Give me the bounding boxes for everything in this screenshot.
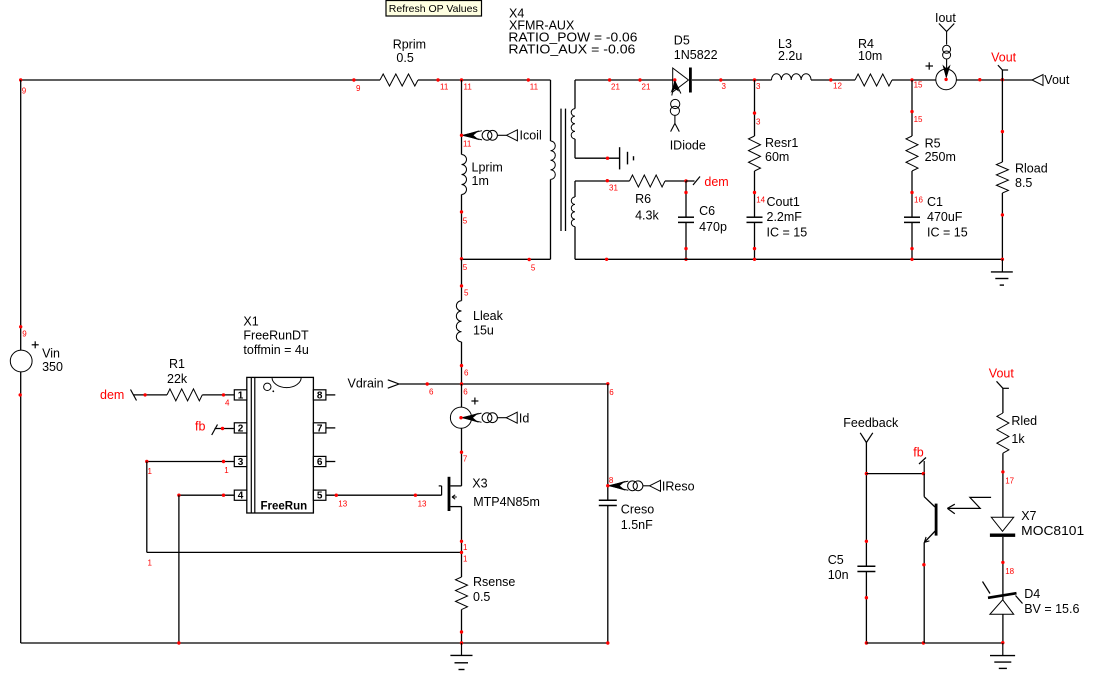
- svg-text:6: 6: [429, 388, 434, 397]
- wire Creso bottom: [606, 506, 609, 645]
- tag fb (left): [195, 420, 218, 436]
- wire D5 cathode to node 3: [673, 78, 771, 91]
- wire R1 to pin1: [202, 393, 234, 407]
- svg-text:0.5: 0.5: [396, 51, 413, 65]
- current probe Id: [450, 398, 529, 429]
- wire Rload to bottom: [1001, 193, 1004, 261]
- svg-text:R5: R5: [925, 137, 941, 151]
- svg-text:Id: Id: [519, 412, 529, 426]
- wire D4 to ground: [1001, 614, 1004, 644]
- capacitor C6 470p: [678, 181, 727, 261]
- svg-text:Rprim: Rprim: [393, 37, 426, 51]
- svg-text:8: 8: [609, 476, 614, 485]
- svg-text:1m: 1m: [472, 174, 489, 188]
- svg-text:470uF: 470uF: [927, 210, 963, 224]
- resistor Rled 1k: [997, 413, 1037, 453]
- svg-text:2: 2: [238, 423, 244, 434]
- svg-text:6: 6: [464, 369, 469, 378]
- svg-text:14: 14: [756, 195, 765, 204]
- svg-text:13: 13: [418, 499, 427, 508]
- wire Vout tag to Rled: [1002, 388, 1004, 413]
- svg-text:Refresh OP Values: Refresh OP Values: [389, 3, 478, 15]
- wire Vout node down to Rload: [1001, 70, 1004, 162]
- input port Feedback: [843, 416, 899, 442]
- IC X1 pin 2: [234, 423, 247, 435]
- wire fb to pin2: [215, 427, 235, 430]
- svg-text:Creso: Creso: [621, 503, 654, 517]
- svg-text:C6: C6: [699, 204, 715, 218]
- svg-text:60m: 60m: [765, 150, 789, 164]
- svg-text:1.5nF: 1.5nF: [621, 518, 653, 532]
- svg-text:1: 1: [463, 555, 468, 564]
- wire Feedback down: [865, 443, 868, 567]
- resistor R5 250m: [906, 136, 956, 171]
- svg-text:IC = 15: IC = 15: [927, 226, 968, 240]
- Refresh OP Values button: [386, 1, 482, 17]
- source Vin 350: [10, 341, 63, 374]
- transformer core: [561, 109, 566, 231]
- svg-text:Cout1: Cout1: [767, 195, 800, 209]
- transistor X7 phototransistor: [922, 474, 937, 643]
- svg-text:0.5: 0.5: [473, 590, 490, 604]
- wire MOSFET source down: [460, 507, 468, 577]
- wire Rsense to ground: [460, 610, 463, 645]
- input port Vdrain: [348, 377, 400, 391]
- IC X1 pin 1: [234, 390, 247, 402]
- transformer aux winding: [571, 181, 575, 259]
- resistor Rload 8.5: [996, 162, 1047, 194]
- resistor R1 22k: [167, 357, 202, 401]
- svg-text:3: 3: [238, 457, 244, 468]
- wire fb row: [866, 472, 925, 475]
- svg-text:7: 7: [463, 455, 468, 464]
- svg-text:RATIO_AUX = -0.06: RATIO_AUX = -0.06: [508, 43, 635, 57]
- wire node6 to Id probe: [461, 384, 463, 407]
- wire bottom rail: [21, 642, 608, 644]
- wire R6 to dem node: [665, 179, 688, 182]
- svg-text:Icoil: Icoil: [520, 129, 542, 143]
- wire pin5 to gate: [326, 494, 441, 509]
- transistor X3 MTP4N85m: [439, 477, 540, 512]
- svg-text:Rload: Rload: [1015, 162, 1048, 176]
- svg-text:C5: C5: [828, 553, 844, 567]
- svg-text:1: 1: [238, 390, 244, 401]
- svg-text:Lleak: Lleak: [473, 309, 504, 323]
- resistor Rprim: [380, 37, 426, 86]
- transformer primary winding: [551, 80, 556, 259]
- svg-text:10n: 10n: [828, 568, 849, 582]
- wire node3 down: [753, 80, 761, 136]
- svg-text:Vout: Vout: [991, 50, 1017, 64]
- svg-text:11: 11: [440, 83, 449, 92]
- svg-text:11: 11: [530, 83, 539, 92]
- wire pin3 left vertical: [146, 462, 148, 553]
- inductor Lprim 1m: [462, 155, 503, 195]
- svg-text:6: 6: [609, 388, 614, 397]
- svg-text:Vin: Vin: [42, 347, 60, 361]
- svg-text:4.3k: 4.3k: [635, 209, 659, 223]
- svg-text:250m: 250m: [925, 150, 956, 164]
- tag dem (aux): [686, 175, 729, 189]
- wire source row to left: [147, 551, 463, 568]
- output port Vout (top right): [1032, 73, 1070, 87]
- resistor Resr1 60m: [749, 136, 799, 171]
- wire Id to MOSFET drain: [460, 428, 468, 486]
- svg-text:15: 15: [914, 81, 923, 90]
- svg-text:1N5822: 1N5822: [674, 48, 718, 62]
- transformer X4 labels: [508, 7, 637, 57]
- svg-text:5: 5: [464, 288, 469, 297]
- svg-text:3: 3: [756, 82, 761, 91]
- svg-text:6: 6: [317, 457, 323, 468]
- svg-text:15: 15: [914, 115, 923, 124]
- wire Vdrain to node 6: [399, 382, 461, 396]
- current probe Icoil: [460, 129, 542, 149]
- tag fb (right): [913, 445, 926, 473]
- wire L3 to R4: [811, 78, 855, 90]
- svg-text:D5: D5: [674, 34, 690, 48]
- svg-text:2.2mF: 2.2mF: [767, 210, 803, 224]
- svg-text:4: 4: [238, 491, 244, 502]
- wire secondary bottom rail: [575, 258, 1002, 261]
- wire pin4 row: [177, 494, 234, 497]
- svg-text:BV = 15.6: BV = 15.6: [1024, 602, 1079, 616]
- svg-text:5: 5: [463, 263, 468, 272]
- svg-text:1: 1: [463, 543, 468, 552]
- resistor R6 4.3k: [630, 175, 666, 223]
- wire pin3 row: [145, 460, 234, 476]
- IC X1 FreeRunDT labels: [243, 315, 309, 358]
- node 9 above Vin: [19, 325, 27, 338]
- inductor Lleak 15u: [456, 301, 503, 342]
- wire Rled to X7 LED: [1001, 453, 1014, 517]
- svg-text:31: 31: [609, 183, 618, 192]
- svg-text:11: 11: [464, 83, 473, 92]
- svg-text:3: 3: [756, 118, 761, 127]
- svg-text:9: 9: [356, 84, 361, 93]
- wire node 6 across: [460, 382, 615, 397]
- svg-text:16: 16: [914, 195, 923, 204]
- svg-text:5: 5: [317, 491, 323, 502]
- wire primary left vertical lower: [461, 195, 463, 260]
- zener D4 BV=15.6: [983, 582, 1080, 617]
- resistor R4 10m: [855, 37, 892, 86]
- svg-text:9: 9: [22, 87, 27, 96]
- svg-text:5: 5: [531, 264, 536, 273]
- diode D5 1N5822: [673, 34, 718, 93]
- wire aux to R6: [575, 179, 630, 192]
- wire top rail left: [21, 79, 380, 81]
- svg-text:C1: C1: [927, 195, 943, 209]
- transformer secondary winding: [571, 80, 575, 158]
- svg-text:1: 1: [224, 466, 229, 475]
- svg-text:D4: D4: [1024, 587, 1040, 601]
- svg-text:8.5: 8.5: [1015, 176, 1032, 190]
- svg-text:1: 1: [148, 559, 153, 568]
- svg-text:21: 21: [611, 83, 620, 92]
- wire R4 to Iout probe: [892, 78, 936, 89]
- svg-text:fb: fb: [913, 445, 923, 459]
- node 9 before Rprim: [352, 78, 361, 93]
- svg-text:X1: X1: [243, 315, 258, 329]
- wire C5 bottom: [865, 572, 868, 645]
- ground main: [450, 643, 472, 670]
- svg-text:15u: 15u: [473, 324, 494, 338]
- wire node15 down: [910, 80, 923, 136]
- svg-text:FreeRunDT: FreeRunDT: [243, 329, 309, 343]
- capacitor C5 10n: [828, 553, 876, 582]
- wire X7 to D4: [1001, 537, 1014, 600]
- svg-text:5: 5: [463, 217, 468, 226]
- light arrow (optocoupler): [947, 497, 991, 513]
- svg-text:21: 21: [642, 83, 651, 92]
- svg-text:X3: X3: [472, 477, 487, 491]
- svg-text:Iout: Iout: [935, 11, 956, 25]
- tag dem (left): [100, 388, 137, 402]
- svg-text:Vout: Vout: [989, 367, 1015, 381]
- resistor Rsense 0.5: [456, 575, 516, 610]
- node 11 labels on top rail: [436, 78, 538, 91]
- wire pin4 vertical to bottom: [177, 495, 180, 645]
- svg-text:dem: dem: [100, 388, 124, 402]
- svg-text:8: 8: [317, 390, 323, 401]
- IC X1 pin 5: [313, 490, 326, 502]
- svg-text:22k: 22k: [167, 372, 188, 386]
- svg-text:IDiode: IDiode: [670, 139, 706, 153]
- svg-text:X7: X7: [1021, 509, 1036, 523]
- svg-text:MOC8101: MOC8101: [1021, 524, 1084, 538]
- IC X1 pin 8: [313, 390, 335, 402]
- wire left rail upper: [20, 80, 22, 350]
- IC X1 body: [247, 377, 314, 513]
- wire dem to R1: [134, 393, 168, 396]
- wire primary left vertical: [461, 80, 463, 155]
- tag Vout (top): [991, 50, 1017, 70]
- svg-text:Rsense: Rsense: [473, 575, 515, 589]
- capacitor Creso 1.5nF: [599, 500, 654, 532]
- svg-text:13: 13: [338, 499, 347, 508]
- svg-text:Feedback: Feedback: [843, 416, 899, 430]
- IC X1 pin 7: [313, 423, 335, 435]
- svg-text:470p: 470p: [699, 220, 727, 234]
- wire secondary top: [575, 78, 673, 91]
- svg-text:dem: dem: [704, 175, 728, 189]
- svg-text:6: 6: [463, 388, 468, 397]
- ground feedback: [990, 643, 1015, 668]
- svg-text:350: 350: [42, 360, 63, 374]
- IC X1 pin 4: [234, 490, 247, 502]
- wire Lleak top: [460, 259, 469, 300]
- wire primary bottom: [460, 257, 551, 272]
- svg-text:1: 1: [148, 467, 153, 476]
- svg-text:10m: 10m: [858, 49, 882, 63]
- svg-text:FreeRun: FreeRun: [261, 501, 308, 513]
- svg-text:R6: R6: [635, 192, 651, 206]
- svg-text:9: 9: [22, 330, 27, 339]
- IC X1 pin 3: [234, 456, 247, 468]
- svg-text:11: 11: [463, 140, 472, 149]
- node 9 left corner: [19, 78, 27, 95]
- wire Creso branch top: [607, 384, 609, 500]
- svg-text:3: 3: [722, 82, 727, 91]
- LED X7 MOC8101: [990, 509, 1084, 538]
- capacitor Cout1 2.2mF: [747, 171, 808, 261]
- svg-text:18: 18: [1005, 567, 1014, 576]
- wire Lleak to Vdrain node: [460, 342, 469, 384]
- inductor L3 2.2u: [772, 37, 812, 80]
- current probe IDiode: [670, 81, 706, 153]
- svg-text:7: 7: [317, 423, 323, 434]
- wire Iout to Vout node: [956, 78, 1032, 81]
- wire mid-tap: [575, 157, 619, 160]
- svg-text:Lprim: Lprim: [472, 161, 503, 175]
- wire feedback bottom rail: [866, 641, 1002, 644]
- wire top rail to transformer: [418, 79, 551, 81]
- svg-text:R1: R1: [169, 357, 185, 371]
- svg-text:Rled: Rled: [1011, 414, 1037, 428]
- current probe IReso: [606, 476, 695, 494]
- svg-text:4: 4: [225, 399, 230, 408]
- svg-text:fb: fb: [195, 420, 205, 434]
- svg-text:Vdrain: Vdrain: [348, 377, 384, 391]
- svg-text:17: 17: [1005, 477, 1014, 486]
- svg-text:MTP4N85m: MTP4N85m: [473, 495, 540, 509]
- svg-text:1k: 1k: [1011, 432, 1025, 446]
- svg-text:IC = 15: IC = 15: [767, 226, 808, 240]
- svg-text:12: 12: [833, 82, 842, 91]
- svg-text:Vout: Vout: [1044, 73, 1070, 87]
- IC X1 pin 6: [313, 456, 335, 468]
- svg-text:IReso: IReso: [662, 480, 695, 494]
- svg-text:2.2u: 2.2u: [778, 49, 802, 63]
- ground output: [991, 259, 1013, 285]
- svg-text:Resr1: Resr1: [765, 136, 798, 150]
- svg-text:toffmin = 4u: toffmin = 4u: [243, 343, 308, 357]
- current probe Iout: [926, 11, 957, 90]
- wire left rail lower: [19, 372, 22, 643]
- node 5 on primary: [460, 210, 468, 225]
- tag Vout (feedback): [989, 367, 1015, 389]
- ground mid-tap (rotated): [620, 147, 634, 169]
- capacitor C1 470uF: [904, 171, 968, 261]
